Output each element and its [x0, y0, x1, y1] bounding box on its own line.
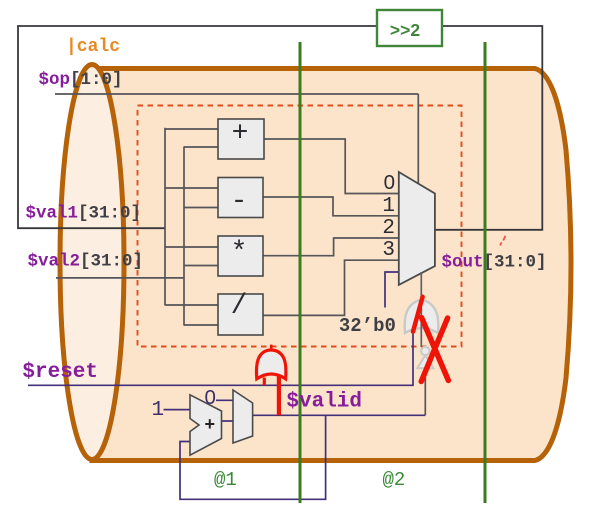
svg-text:@1: @1	[214, 469, 237, 491]
svg-text:/: /	[231, 291, 248, 322]
deletion X over gate (red)	[421, 318, 448, 382]
wire: OR gate output stub (red)	[270, 345, 273, 350]
wire: constant 1 into adder A1	[164, 409, 191, 411]
pipeline cylinder body |calc	[92, 69, 571, 461]
adder A1 (counter +)	[190, 395, 222, 455]
alignment box >>2	[377, 10, 442, 46]
svg-text:1: 1	[152, 399, 165, 422]
svg-text:0: 0	[384, 171, 395, 194]
retain mux M2	[233, 390, 253, 443]
wire: @1 feedback loop (purple)	[180, 415, 326, 499]
svg-text:32’b0: 32’b0	[339, 315, 396, 337]
wire: multiplier output to mux input 2	[263, 238, 399, 256]
wire: $val2 horizontal	[56, 277, 184, 279]
svg-text:2: 2	[382, 217, 395, 240]
red dashed staging region	[138, 106, 462, 347]
deleted inverter triangle (faded)	[417, 355, 433, 368]
wire: OR gate left input from $reset (red)	[263, 378, 266, 386]
wire: val1 stub to adder +	[165, 128, 218, 130]
pipeline cylinder left end-cap ellipse	[60, 65, 124, 460]
svg-text:*: *	[231, 238, 248, 269]
op box multiplier *	[218, 236, 263, 276]
svg-text:-: -	[231, 187, 248, 218]
deletion slash over wire (red)	[413, 297, 423, 332]
deleted OR gate (faded)	[405, 300, 439, 333]
svg-text:$op[1:0]: $op[1:0]	[39, 70, 123, 90]
wire: $op horizontal	[55, 93, 418, 95]
wire: divider output to mux input 3	[263, 260, 399, 315]
stage boundary line @1/@2 (green)	[484, 42, 487, 503]
svg-text:+: +	[232, 119, 249, 150]
wire: 32'b0 constant to mux (purple)	[385, 272, 399, 308]
wire: val1 stub to divider /	[165, 304, 218, 306]
svg-text:|calc: |calc	[66, 37, 120, 57]
wire: val2 stub to subtractor -	[184, 207, 218, 209]
wire: adder A1 output to retain mux	[222, 420, 234, 422]
wire: val2 stub to adder +	[184, 146, 218, 148]
svg-text:$val2[31:0]: $val2[31:0]	[28, 252, 144, 272]
wire: $val2 bus vertical	[183, 147, 185, 326]
mux U1 (4:1 result mux)	[399, 172, 435, 285]
deleted inverter bubble (faded)	[421, 347, 429, 355]
wire: mux output down through deleted gate	[420, 272, 422, 347]
svg-text:+: +	[204, 416, 215, 436]
op box divider /	[218, 294, 263, 335]
wire: inverter input from $valid wire	[424, 368, 426, 415]
svg-text:$valid: $valid	[286, 391, 362, 414]
svg-text:$out[31:0]: $out[31:0]	[442, 253, 547, 273]
svg-text:1: 1	[382, 195, 395, 218]
svg-text:0: 0	[205, 386, 216, 409]
wire: adder output to mux input 0	[264, 139, 399, 194]
wire: subtractor output to mux input 1	[263, 197, 399, 216]
wire: OR gate right input $valid (red)	[277, 377, 281, 416]
deletion tick marks on $out wire (red)	[500, 236, 505, 246]
op box subtractor -	[218, 178, 263, 218]
wire: val2 stub to multiplier *	[184, 265, 218, 267]
OR gate G1 (new valid logic, red)	[256, 350, 285, 379]
wire: val1 stub to subtractor -	[165, 187, 218, 189]
wire: 0 stub into retain mux	[216, 399, 233, 401]
wire: $reset (purple)	[28, 334, 413, 386]
wire: $out feedback path through >>2 (right, top, left sides)	[18, 26, 542, 230]
svg-text:3: 3	[382, 239, 395, 262]
wire: $valid horizontal from retain mux	[253, 414, 425, 416]
op box adder +	[218, 119, 264, 159]
wire: val2 stub to divider /	[184, 324, 218, 326]
svg-text:>>2: >>2	[390, 20, 420, 40]
wire: mux select vertical	[417, 94, 419, 185]
svg-text:$val1[31:0]: $val1[31:0]	[26, 204, 142, 224]
svg-text:@2: @2	[383, 469, 406, 491]
svg-text:$reset: $reset	[22, 361, 98, 384]
wire: val1 stub to multiplier *	[165, 246, 218, 248]
stage boundary line @0/@1 (green)	[299, 42, 302, 503]
wire: $val1 bus vertical	[164, 128, 166, 306]
